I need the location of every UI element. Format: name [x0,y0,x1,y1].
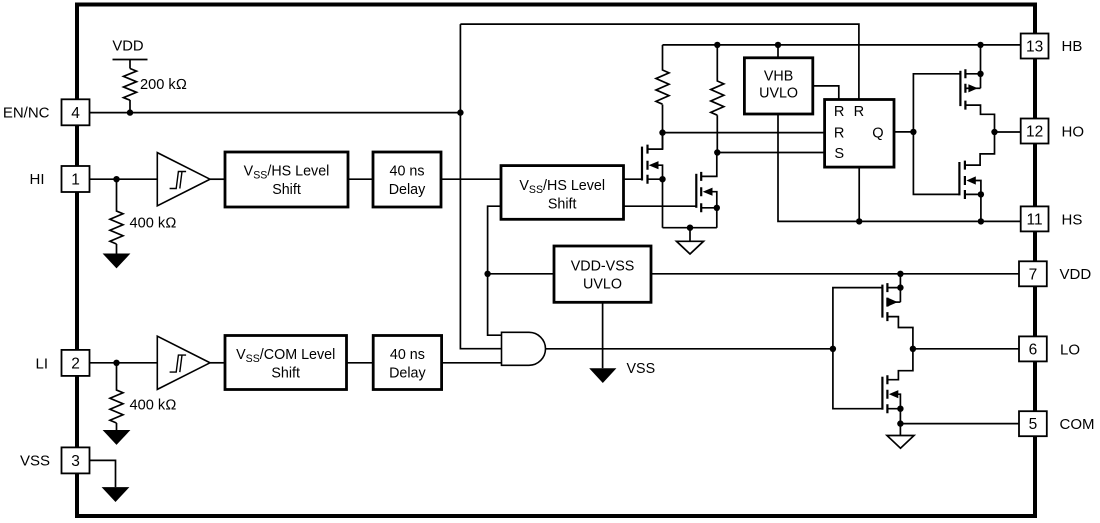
transistor Q2 source stub [701,208,717,228]
wire level shift to delay (LI) [347,362,374,364]
svg-text:12: 12 [1026,124,1043,141]
wire EN/NC row [90,112,461,114]
node EN-200k junction [127,109,133,115]
transistor Q2 (level shift NMOS) gate bar [695,174,697,208]
wire VHB UVLO output elbow to latch top R [813,86,839,100]
node Q to bracket [910,129,916,135]
transistor Q1 source stub [648,179,663,228]
svg-text:6: 6 [1029,341,1038,358]
wire UVLO bottom to VSS [602,302,604,368]
svg-text:Q: Q [872,125,883,141]
node LI-400k junction [113,360,119,366]
schmitt buffer (HI) [157,153,210,206]
node Q6 body-source tie [897,406,903,412]
svg-text:LO: LO [1060,341,1080,358]
transistor Q5 (LO PMOS) gate bar [881,285,883,318]
wire pin3 to ground [90,460,116,487]
svg-text:Delay: Delay [389,182,426,198]
svg-text:VSS: VSS [627,361,656,377]
svg-text:3: 3 [71,453,80,470]
svg-text:11: 11 [1027,211,1043,228]
ground VSS filled arrow (LI 400k) [103,430,131,445]
transistor Q1 channel [646,145,648,184]
transistor Q3 (HO PMOS) gate bar [959,71,961,106]
node latch bottom on HS rail [856,218,862,224]
schmitt buffer (LI) [157,336,210,389]
wire HB rail [663,44,1021,46]
svg-text:VHB: VHB [764,68,793,84]
resistor 400k (LI) [110,363,123,430]
svg-text:HB: HB [1062,38,1083,55]
resistor 400k (HI) [110,179,123,253]
ground HS open triangle (level shift) [677,241,704,254]
pin 5 box [1019,411,1047,436]
node HO output [991,129,997,135]
wire stub to COM ground [899,424,901,436]
node COM junction [897,420,903,426]
transistor Q4 body stub and arrow [974,181,981,195]
node source rail center [687,225,693,231]
svg-text:Shift: Shift [271,366,300,382]
AND gate U2 [502,332,546,365]
pin 12 box [1021,119,1049,144]
transistor Q6 gate bar [881,377,883,410]
block VHB UVLO [744,58,812,114]
node EN-vertical junction [457,109,463,115]
node AND output to bracket [830,346,836,352]
svg-text:200 kΩ: 200 kΩ [140,77,187,93]
node VDD rail to LO PMOS [897,271,903,277]
svg-text:R: R [854,104,865,120]
wire level shift common source rail [663,227,717,229]
node R2 bottom / S row [714,149,720,155]
transistor Q6 source stub [887,409,900,424]
wire top loop to latch top R [460,24,859,99]
svg-text:COM: COM [1060,416,1095,433]
svg-text:S: S [834,146,844,162]
wire LO node to pin 6 [913,348,1019,350]
latch U3 R/S box [825,100,894,168]
svg-text:4: 4 [71,105,80,122]
svg-text:VDD: VDD [112,39,143,55]
svg-text:VDD: VDD [1060,266,1092,283]
svg-text:UVLO: UVLO [759,86,798,102]
svg-text:EN/NC: EN/NC [3,105,50,122]
ground COM open triangle [887,436,914,449]
ground VSS filled arrow (HI 400k) [103,254,131,269]
svg-text:R: R [834,125,845,141]
pin 1 box [62,166,90,192]
pin 3 box [62,447,90,473]
transistor Q6 (LO NMOS) drain step [887,349,913,380]
wire COM rail to pin 5 [900,423,1018,425]
node Q2 body-source tie [714,205,720,211]
ground VSS filled arrow (pin3) [102,487,130,502]
svg-text:HO: HO [1062,123,1085,140]
svg-text:VDD-VSS: VDD-VSS [571,258,635,274]
wire HI row [90,178,158,180]
transistor Q3 drain step to HO node [965,105,994,132]
svg-text:Shift: Shift [548,196,577,212]
transistor Q6 body stub and arrow [897,394,901,409]
VDD supply bar [113,60,148,69]
svg-text:HS: HS [1062,211,1083,228]
wire LO driver gate bracket [833,288,882,409]
wire schmitt to level shift box (LI) [210,362,225,364]
svg-text:HI: HI [30,171,45,188]
transistor Q3 channel [964,69,966,109]
transistor Q3 source stub to HB [965,45,980,88]
node VHB tap on HB rail [775,42,781,48]
transistor Q2 body stub and arrow [710,192,717,208]
transistor Q1 (level shift NMOS) gate bar [641,147,643,181]
block 40ns delay (LI) [373,336,441,390]
pin 13 box [1021,34,1049,59]
pin 7 box [1019,261,1047,286]
wire level shift to delay (HI) [348,178,373,180]
node R2 top tap [714,42,720,48]
transistor Q5 body stub and arrow [887,301,900,303]
wire delay to mid level shift [441,178,501,180]
svg-text:VSS: VSS [20,453,50,470]
transistor Q4 (HO NMOS) drain step [965,132,995,165]
transistor Q1 drain stub [648,133,663,150]
node Q5 body-source tie [897,284,903,290]
wire R row to latch [663,132,825,134]
wire schmitt to level shift box (HI) [210,178,225,180]
wire S row to latch [717,152,824,154]
wire VHB UVLO top stub [777,45,779,58]
pin 4 box [62,99,90,125]
resistor R2 pullup [711,45,724,153]
node Q3 source on HB rail [977,42,983,48]
block 40ns delay (HI) [373,152,441,207]
wire UVLO input [488,273,554,275]
pin 11 box [1021,206,1049,231]
node UVLO input junction [484,271,490,277]
wire gate lead Q1 from mid level shift [624,178,643,180]
pin 2 box [62,350,90,376]
wire latch Q output [894,131,913,133]
ground VSS filled arrow (UVLO) [589,368,616,383]
node R1 bottom / R row [659,129,665,135]
pin 6 box [1019,336,1047,361]
wire HO driver gate bracket [913,74,960,195]
wire VDD rail [651,273,1021,275]
svg-text:5: 5 [1029,416,1038,433]
svg-text:2: 2 [71,355,80,372]
node Q1 body-source tie [659,176,665,182]
wire stub to HS ground [689,228,691,242]
wire mid level shift wrap to UVLO row and AND top input [488,206,502,335]
wire gate lead Q2 from mid level shift [624,205,697,207]
wire latch bottom to HS rail [858,167,860,221]
transistor Q4 source stub [965,194,981,221]
node Q3 body-source tie [977,71,983,77]
transistor Q5 source stub to VDD [887,274,900,302]
transistor Q5 channel [886,283,888,321]
svg-text:Shift: Shift [272,182,301,198]
transistor Q2 channel [700,172,702,212]
svg-text:40 ns: 40 ns [390,164,425,180]
wire LI row [90,362,158,364]
transistor Q2 drain stub [701,153,717,177]
svg-text:UVLO: UVLO [583,277,622,293]
svg-text:400 kΩ: 400 kΩ [130,398,177,414]
node Q4 source on HS rail [978,218,984,224]
transistor Q4 channel [964,161,966,199]
block Vss/HS Level Shift (high-side) [501,166,624,220]
svg-text:1: 1 [71,172,80,189]
transistor Q1 body stub and arrow [656,165,663,179]
wire VHB UVLO bottom to HS rail [778,114,1021,221]
block Vss/HS Level Shift (input stage) [225,152,348,207]
transistor Q6 channel [886,375,888,413]
wire EN vertical to AND middle input [460,24,501,349]
svg-text:400 kΩ: 400 kΩ [130,216,177,232]
resistor R1 pullup [656,45,669,149]
svg-text:LI: LI [35,356,48,373]
wire delay to AND gate [442,362,502,364]
svg-text:40 ns: 40 ns [390,347,425,363]
node Q4 body-source tie [978,191,984,197]
node LO output [910,346,916,352]
transistor Q4 gate bar [958,162,960,195]
wire AND output to LO driver gates [546,348,833,350]
block VDD-VSS UVLO [554,246,651,302]
block Vss/COM Level Shift [225,336,347,390]
wire HO node to pin 12 [995,131,1021,133]
svg-text:Delay: Delay [389,366,426,382]
transistor Q5 drain step to LO node [887,317,913,349]
transistor Q3 body stub and arrow [965,87,980,89]
resistor 200k [124,69,137,113]
svg-text:R: R [834,104,845,120]
svg-text:7: 7 [1029,266,1038,283]
node HI-400k junction [113,176,119,182]
svg-text:13: 13 [1026,39,1043,56]
